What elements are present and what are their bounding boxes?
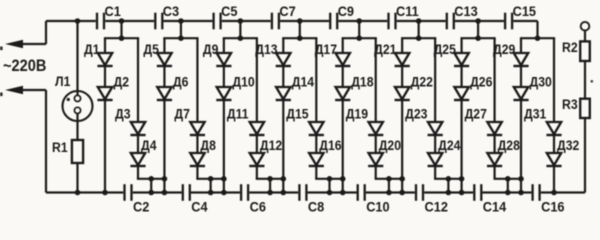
diode Д12	[249, 137, 282, 166]
capacitor С3	[154, 3, 179, 29]
svg-text:Д3: Д3	[115, 106, 131, 122]
wire - right leg cell 3	[256, 38, 258, 179]
wire - bottom bar cell 7	[493, 178, 522, 180]
node - top bar junction 1	[119, 35, 125, 41]
svg-text:С9: С9	[338, 3, 354, 19]
wire - input bottom to bottom rail	[45, 90, 47, 193]
node - left leg on bottom rail 4	[280, 190, 286, 196]
wire - right leg cell 6	[434, 38, 436, 179]
node - top bar junction 7	[475, 35, 481, 41]
diode Д6	[157, 74, 189, 100]
node - top rail junction 5	[356, 18, 362, 24]
node - left leg on bottom rail 2	[162, 190, 168, 196]
node - bottom rail junction 6	[446, 190, 452, 196]
diode Д17	[315, 41, 351, 66]
svg-text:Д14: Д14	[292, 74, 315, 90]
node - bottom bar junction 5	[386, 176, 392, 182]
resistor R2	[562, 39, 590, 61]
wire - right leg cell 1	[137, 38, 139, 179]
wire - right leg cell 8	[553, 38, 555, 192]
diode Д26	[454, 74, 492, 100]
svg-text:Д7: Д7	[174, 106, 190, 122]
node - bottom bar junction 6	[446, 176, 452, 182]
svg-text:Д18: Д18	[351, 74, 373, 90]
diode Д8	[190, 137, 216, 166]
wire - left leg cell 6	[401, 38, 403, 192]
node - bottom bar junction 1	[148, 176, 154, 182]
capacitor С10	[357, 184, 390, 214]
capacitor С13	[446, 3, 479, 29]
diode Д28	[487, 137, 520, 166]
capacitor С2	[123, 184, 149, 214]
node - bottom rail junction 7	[505, 190, 511, 196]
node - top bar junction 2	[178, 35, 184, 41]
node - bottom rail junction 1	[148, 190, 154, 196]
diode Д2	[97, 74, 129, 100]
wire - left leg cell 7	[460, 38, 462, 192]
input terminal arrow (top)	[5, 40, 46, 49]
wire - left leg cell 2	[163, 38, 165, 192]
node - bottom bar to next leg 6	[459, 176, 465, 182]
svg-text:Д15: Д15	[286, 106, 308, 122]
svg-text:Д25: Д25	[434, 41, 456, 57]
diode Д22	[395, 74, 433, 100]
diode Д16	[309, 137, 342, 166]
node - top bar junction 5	[356, 35, 362, 41]
svg-text:Д10: Д10	[232, 74, 254, 90]
svg-text:С8: С8	[308, 199, 325, 215]
node - lamp tap on top rail	[75, 18, 81, 24]
svg-text:Д29: Д29	[493, 41, 515, 57]
node - bottom bar junction 2	[208, 176, 214, 182]
capacitor С11	[387, 3, 419, 29]
node - top rail junction 6	[416, 18, 422, 24]
diode Д3	[115, 106, 146, 135]
svg-text:Д23: Д23	[405, 106, 427, 122]
wire - bottom bar cell 5	[375, 178, 404, 180]
node - bottom rail junction 2	[208, 190, 214, 196]
node - bottom bar junction 7	[505, 176, 511, 182]
node - bottom bar to next leg 1	[162, 176, 168, 182]
svg-text:Д21: Д21	[374, 41, 396, 57]
wire - bottom bar cell 4	[315, 178, 344, 180]
node - bottom rail junction 4	[327, 190, 333, 196]
diode Д27	[465, 106, 503, 135]
svg-text:Д11: Д11	[227, 106, 249, 122]
wire - top bar cell 4	[282, 37, 317, 39]
node - top bar junction 3	[238, 35, 244, 41]
node - top bar junction 8	[535, 35, 541, 41]
diode Д31	[524, 106, 562, 135]
node - last leg on bottom rail	[551, 190, 557, 196]
node - bottom bar to next leg 2	[221, 176, 227, 182]
capacitor С8	[298, 184, 324, 214]
svg-text:Д32: Д32	[557, 137, 579, 153]
wire - bottom stub cell 5	[388, 179, 390, 193]
diode Д21	[374, 41, 410, 66]
wire - left leg cell 8	[520, 38, 522, 192]
capacitor С4	[182, 184, 208, 214]
svg-text:С4: С4	[191, 199, 208, 215]
wire - top bar cell 5	[342, 37, 377, 39]
wire - input top to top rail	[45, 21, 47, 44]
wire - bottom bar cell 3	[256, 178, 285, 180]
wire - right leg cell 7	[493, 38, 495, 179]
svg-text:Д31: Д31	[524, 106, 546, 122]
diode Д23	[405, 106, 443, 135]
wire - top bar cell 3	[223, 37, 258, 39]
wire - top bar cell 6	[401, 37, 436, 39]
wire - top stub cell 3	[239, 21, 241, 38]
wire - bottom stub cell 3	[269, 179, 271, 193]
input terminal arrow (bottom)	[5, 86, 46, 95]
wire - bottom stub cell 2	[210, 179, 212, 193]
wire - top rail	[46, 20, 538, 22]
svg-text:С6: С6	[250, 199, 267, 215]
capacitor С5	[212, 3, 237, 29]
node - top bar junction 4	[297, 35, 303, 41]
node - left leg on bottom rail 6	[399, 190, 405, 196]
diode Д14	[276, 74, 315, 100]
left edge mark a	[0, 47, 3, 51]
svg-text:Д8: Д8	[200, 137, 216, 153]
wire - top stub cell 2	[180, 21, 182, 38]
wire - bottom stub cell 4	[328, 179, 330, 193]
svg-text:Д13: Д13	[255, 41, 277, 57]
wire - right leg cell 2	[196, 38, 198, 179]
node - top rail junction 3	[238, 18, 244, 24]
svg-text:С2: С2	[133, 199, 149, 215]
svg-text:С13: С13	[454, 3, 478, 19]
svg-text:С16: С16	[541, 199, 565, 215]
node - top rail junction 2	[178, 18, 184, 24]
diode Д9	[203, 41, 232, 66]
wire - left leg cell 5	[342, 38, 344, 192]
svg-text:Д5: Д5	[143, 41, 159, 57]
wire - R2 to R3	[584, 61, 586, 99]
diode Д19	[346, 106, 384, 135]
capacitor С14	[473, 184, 507, 214]
svg-text:С7: С7	[279, 3, 295, 19]
svg-text:Д6: Д6	[173, 74, 189, 90]
svg-text:Д1: Д1	[84, 41, 100, 57]
svg-text:Д12: Д12	[260, 137, 282, 153]
wire - terminal to R2	[584, 31, 586, 42]
node - left leg on bottom rail 1	[102, 190, 108, 196]
diode Д20	[368, 137, 401, 166]
diode Д10	[216, 74, 254, 100]
node - bottom rail junction 3	[267, 190, 273, 196]
wire - top bar cell 1	[104, 37, 139, 39]
svg-text:Д24: Д24	[438, 137, 461, 153]
wire - top stub cell 6	[418, 21, 420, 38]
wire - top stub cell 8	[536, 21, 538, 38]
svg-text:Д16: Д16	[319, 137, 341, 153]
wire - bottom bar cell 2	[196, 178, 225, 180]
svg-text:R1: R1	[52, 139, 68, 155]
node - bottom bar junction 3	[267, 176, 273, 182]
speck near R2	[591, 80, 594, 83]
node - left leg on bottom rail 8	[518, 190, 524, 196]
net label ~220V	[3, 57, 46, 75]
wire - bottom stub cell 6	[447, 179, 449, 193]
capacitor С12	[415, 184, 448, 214]
node - bottom bar to next leg 7	[518, 176, 524, 182]
svg-text:Д30: Д30	[530, 74, 552, 90]
svg-text:Д27: Д27	[465, 106, 487, 122]
svg-text:С12: С12	[425, 199, 448, 215]
svg-text:Д20: Д20	[379, 137, 401, 153]
wire - top stub cell 1	[120, 21, 122, 38]
resistor R3	[562, 96, 590, 118]
capacitor С15	[504, 3, 537, 29]
capacitor С6	[240, 184, 266, 214]
resistor R1	[52, 139, 83, 163]
wire - lamp to resistor R1	[76, 121, 78, 140]
diode Д29	[493, 41, 529, 66]
wire - top bar cell 2	[163, 37, 198, 39]
svg-text:Д2: Д2	[114, 74, 130, 90]
svg-text:R3: R3	[562, 96, 578, 112]
diode Д5	[143, 41, 172, 66]
svg-text:Д9: Д9	[203, 41, 219, 57]
neon lamp Л1	[55, 73, 93, 121]
svg-text:Д19: Д19	[346, 106, 368, 122]
svg-text:~220В: ~220В	[3, 57, 46, 75]
diode Д30	[513, 74, 551, 100]
diode Д7	[174, 106, 205, 135]
node - left leg on bottom rail 3	[221, 190, 227, 196]
wire - bottom bar cell 6	[434, 178, 463, 180]
svg-text:Д4: Д4	[141, 137, 157, 153]
diode Д11	[227, 106, 265, 135]
node - top rail junction 7	[475, 18, 481, 24]
diode Д24	[428, 137, 462, 166]
svg-text:С5: С5	[221, 3, 238, 19]
svg-text:С10: С10	[366, 199, 389, 215]
wire - left leg cell 4	[282, 38, 284, 192]
wire - top stub cell 5	[358, 21, 360, 38]
node - bottom rail junction 5	[386, 190, 392, 196]
wire - R3 to bottom rail	[584, 118, 586, 193]
svg-text:С1: С1	[105, 3, 122, 19]
svg-text:С3: С3	[163, 3, 180, 19]
wire - top bar cell 8	[520, 37, 555, 39]
wire - left leg cell 3	[223, 38, 225, 192]
svg-text:Д26: Д26	[470, 74, 492, 90]
svg-text:С11: С11	[396, 3, 419, 19]
diode Д25	[434, 41, 470, 66]
svg-text:С14: С14	[483, 199, 507, 215]
svg-text:R2: R2	[562, 39, 578, 55]
diode Д18	[335, 74, 373, 100]
diode Д13	[255, 41, 291, 66]
wire - top bar cell 7	[460, 37, 495, 39]
wire - top stub cell 4	[299, 21, 301, 38]
wire - bottom bar cell 1	[137, 178, 166, 180]
node - top bar junction 6	[416, 35, 422, 41]
svg-text:Д22: Д22	[411, 74, 433, 90]
svg-text:Д28: Д28	[498, 137, 520, 153]
node - R1 on bottom rail	[75, 190, 81, 196]
diode Д15	[286, 106, 324, 135]
node - left leg on bottom rail 7	[459, 190, 465, 196]
wire - R1 to bottom rail	[76, 163, 78, 193]
wire - right leg cell 5	[375, 38, 377, 179]
svg-text:Л1: Л1	[55, 73, 70, 89]
node - top rail junction 4	[297, 18, 303, 24]
svg-text:С15: С15	[513, 3, 537, 19]
wire - left leg cell 1	[104, 38, 106, 192]
diode Д1	[84, 41, 113, 66]
node - bottom bar to next leg 3	[280, 176, 286, 182]
wire - top rail to lamp L1	[76, 21, 78, 91]
wire - bottom stub cell 1	[150, 179, 152, 193]
wire - top stub cell 7	[477, 21, 479, 38]
node - bottom bar to next leg 4	[340, 176, 346, 182]
node - bottom bar junction 4	[327, 176, 333, 182]
capacitor С1	[96, 3, 121, 29]
left edge mark b	[0, 93, 3, 97]
wire - bottom stub cell 7	[507, 179, 509, 193]
node - bottom bar to next leg 5	[399, 176, 405, 182]
wire - right leg cell 4	[315, 38, 317, 179]
capacitor С7	[271, 3, 296, 29]
node - top rail junction 1	[119, 18, 125, 24]
node - left leg on bottom rail 5	[340, 190, 346, 196]
diode Д32	[546, 137, 579, 166]
output terminal	[581, 22, 590, 31]
wire - bottom rail	[46, 191, 585, 193]
diode Д4	[130, 137, 157, 166]
svg-text:Д17: Д17	[315, 41, 337, 57]
capacitor С16	[531, 184, 565, 214]
capacitor С9	[329, 3, 354, 29]
